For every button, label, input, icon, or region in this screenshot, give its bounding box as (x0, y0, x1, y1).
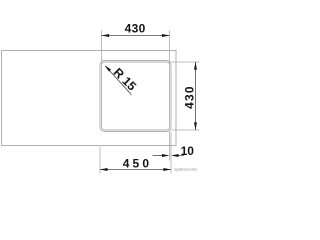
extension line right of 450/10 dims (170, 132, 172, 174)
bowl outline R15 (102, 62, 170, 130)
dimension line 450 (100, 169, 171, 171)
arrow top of right 430 (194, 62, 197, 70)
extension line top of right 430 dim (171, 61, 200, 63)
extension line bottom of right 430 dim (171, 129, 200, 131)
svg-text:10: 10 (181, 144, 195, 158)
svg-text:appliances-store: appliances-store (174, 168, 198, 172)
worktop outline (2, 51, 177, 146)
svg-text:430: 430 (183, 85, 197, 109)
extension line left of 450 dim (99, 147, 101, 174)
arrow pointing left at 10 dim (171, 154, 179, 157)
extension line right of top 430 dim (169, 31, 171, 64)
arrow pointing right at 10 dim (162, 154, 170, 157)
extension line left of 10 dim (bowl edge) (169, 131, 171, 161)
R15 leader line (106, 66, 132, 95)
R15 arrow (105, 65, 111, 71)
svg-text:R 15: R 15 (111, 65, 139, 93)
dimension line top 430 (102, 35, 170, 37)
arrow left of top 430 (102, 34, 110, 37)
svg-text:430: 430 (125, 22, 146, 36)
10 dim left line with arrow pointing right (153, 155, 164, 157)
arrow right of 450 (163, 168, 171, 171)
dimension line right 430 (195, 62, 197, 130)
extension line left of top 430 dim (101, 31, 103, 64)
arrow left of 450 (100, 168, 108, 171)
10 dim right line with arrow pointing left (178, 155, 184, 157)
sink flange / cutout outline (100, 61, 171, 132)
arrow right of top 430 (162, 34, 170, 37)
arrow bottom of right 430 (194, 122, 197, 130)
svg-text:450: 450 (123, 157, 153, 171)
